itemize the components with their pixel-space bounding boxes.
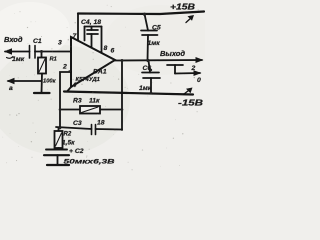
svg-text:а: а: [9, 85, 13, 92]
svg-text:+ С2: + С2: [69, 148, 84, 155]
svg-text:6: 6: [111, 48, 115, 55]
svg-text:1мк: 1мк: [12, 56, 25, 63]
svg-text:С6: С6: [143, 65, 152, 72]
svg-text:Выход: Выход: [160, 49, 185, 58]
svg-text:К574УД1: К574УД1: [76, 77, 100, 83]
svg-text:50мкх6,3В: 50мкх6,3В: [64, 159, 115, 166]
svg-text:18: 18: [97, 120, 105, 127]
svg-text:Вход: Вход: [4, 35, 23, 44]
svg-text:С4, 18: С4, 18: [81, 19, 101, 26]
svg-text:1мк: 1мк: [139, 85, 152, 92]
svg-text:+15В: +15В: [170, 2, 195, 12]
svg-text:-15В: -15В: [178, 98, 203, 108]
svg-text:С1: С1: [33, 38, 42, 45]
svg-text:2: 2: [62, 64, 67, 71]
svg-text:R2: R2: [64, 132, 72, 138]
svg-text:С3: С3: [73, 120, 82, 127]
svg-text:1мк: 1мк: [148, 40, 161, 47]
svg-text:11к: 11к: [89, 98, 100, 105]
svg-text:0: 0: [197, 77, 201, 84]
svg-text:8: 8: [104, 45, 108, 52]
svg-text:2: 2: [191, 65, 196, 72]
svg-text:100к: 100к: [43, 79, 57, 85]
svg-text:1,5к: 1,5к: [62, 140, 75, 147]
svg-text:R3: R3: [73, 98, 82, 105]
svg-text:4: 4: [72, 82, 77, 89]
svg-text:3: 3: [58, 40, 62, 47]
svg-text:DA1: DA1: [93, 69, 107, 76]
svg-text:R1: R1: [50, 57, 57, 63]
svg-text:С5: С5: [152, 25, 161, 32]
